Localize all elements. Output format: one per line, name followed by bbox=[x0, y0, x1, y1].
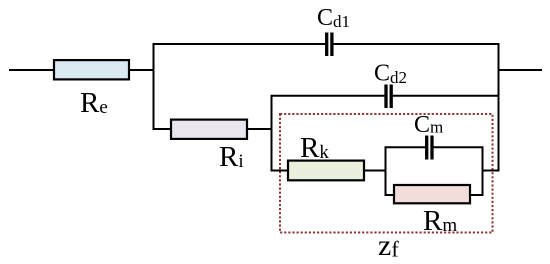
wire output right bbox=[499, 69, 543, 71]
wire middle vertical bbox=[271, 95, 273, 172]
capacitor Cd1 bbox=[327, 33, 332, 57]
wire Cd2 rail left of Cd2 bbox=[271, 95, 386, 97]
wire Cm rail left of Cm bbox=[385, 146, 426, 148]
wire Rk branch bbox=[272, 170, 289, 172]
wire Re to node bbox=[129, 69, 155, 71]
wire Cd2 rail right of Cd2 bbox=[392, 95, 499, 97]
wire inner left vertical bbox=[385, 147, 387, 197]
wire input left bbox=[9, 69, 54, 71]
wire Ri branch bbox=[154, 128, 172, 130]
wire Rm left bbox=[386, 194, 395, 196]
wire top rail left of Cd1 bbox=[153, 43, 327, 45]
wire top rail right of Cd1 bbox=[333, 43, 500, 45]
resistor Rk bbox=[288, 161, 364, 181]
box Zf dotted boundary bbox=[280, 114, 493, 233]
resistor Rm bbox=[394, 185, 470, 203]
resistor Ri bbox=[171, 120, 247, 139]
wire right vertical bbox=[498, 43, 500, 172]
wire connector inner network to right vertical bbox=[483, 170, 500, 172]
capacitor Cd2 bbox=[386, 85, 391, 109]
wire Rk to node bbox=[364, 170, 387, 172]
wire Rm right bbox=[470, 194, 484, 196]
capacitor Cm bbox=[427, 136, 432, 160]
wire Ri to node bbox=[247, 128, 273, 130]
resistor Re bbox=[54, 60, 129, 79]
wire inner right vertical bbox=[482, 147, 484, 197]
wire Cm rail right of Cm bbox=[433, 146, 483, 148]
wire left vertical bbox=[153, 43, 155, 130]
